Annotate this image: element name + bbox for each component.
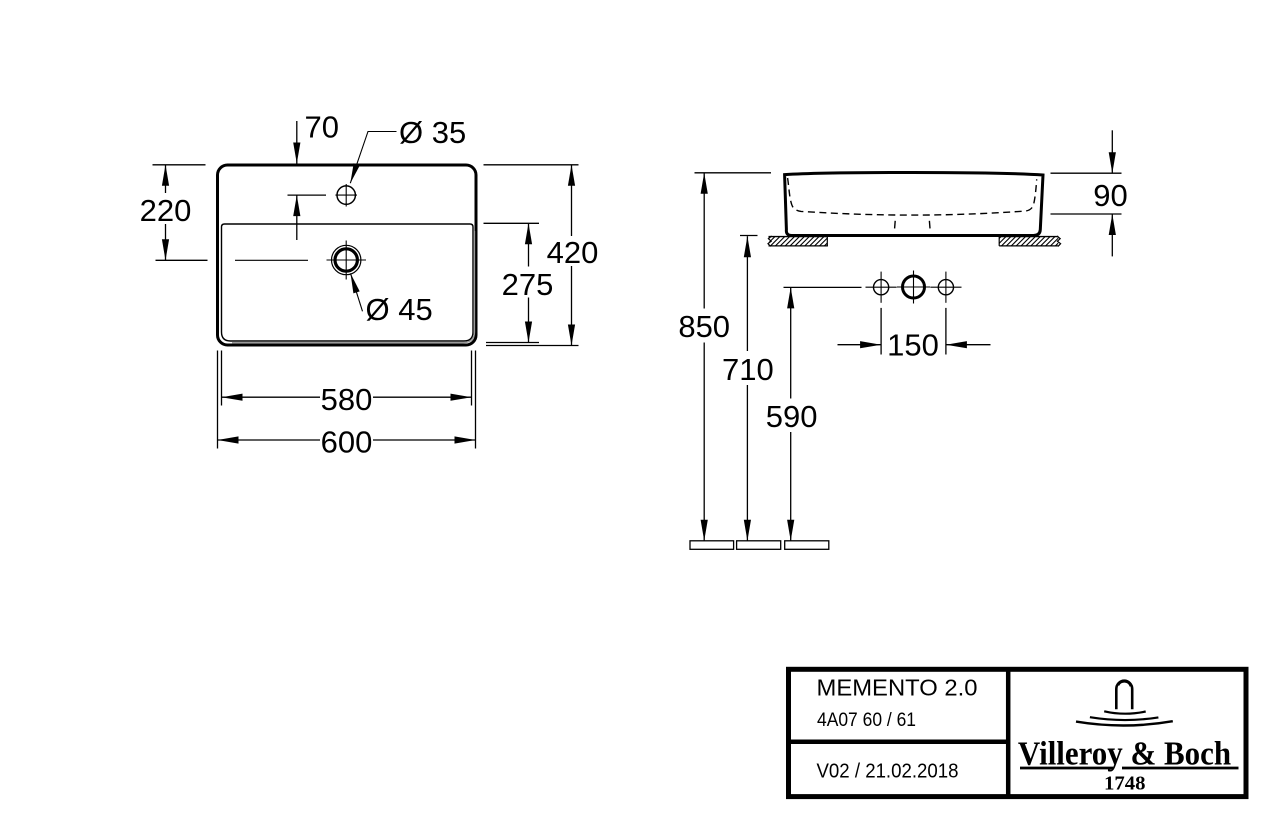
side view: basin profile outline — [785, 172, 1043, 235]
side view: dashed inner bowl line — [788, 178, 1037, 215]
svg-text:420: 420 — [547, 235, 599, 270]
drain inner circle (Ø45) — [335, 249, 357, 271]
dimension 590 — [784, 286, 862, 288]
svg-text:600: 600 — [321, 425, 373, 460]
dimension 420 (right) — [484, 164, 579, 166]
left view: inner basin bowl edge — [222, 224, 474, 341]
svg-text:4A07 60 / 61: 4A07 60 / 61 — [817, 709, 916, 731]
tap hole circle (Ø35) — [337, 186, 355, 204]
dimension 710 — [740, 235, 758, 237]
svg-text:Ø 45: Ø 45 — [366, 292, 433, 327]
title block horizontal divider — [786, 740, 1008, 745]
dimension 70 (tap hole offset) — [296, 121, 298, 164]
svg-text:V02 / 21.02.2018: V02 / 21.02.2018 — [817, 760, 959, 782]
svg-text:850: 850 — [678, 309, 730, 344]
countertop hatch right — [991, 236, 1070, 247]
title block vertical divider — [1006, 667, 1011, 799]
dimension 150 — [880, 308, 882, 355]
svg-text:590: 590 — [766, 399, 818, 434]
svg-text:MEMENTO 2.0: MEMENTO 2.0 — [817, 675, 978, 701]
dimension 275 (inner right) — [484, 222, 540, 224]
svg-text:90: 90 — [1093, 178, 1127, 213]
logo faucet arch — [1116, 681, 1132, 709]
supply hole center (bold) — [903, 276, 925, 298]
break zigzag right — [1057, 236, 1061, 246]
supply hole right — [938, 280, 953, 295]
left view: grey shadow inside bowl right+bottom — [232, 231, 474, 343]
svg-text:220: 220 — [140, 193, 192, 228]
title block outer border — [789, 669, 1247, 796]
drain centerline inside basin — [235, 259, 308, 261]
svg-text:70: 70 — [305, 110, 339, 145]
logo ripple arc 2 — [1090, 717, 1159, 720]
dimension 580 — [221, 351, 223, 406]
dimension 220 (left) — [153, 164, 206, 166]
hidden drain ticks — [894, 221, 897, 229]
svg-text:710: 710 — [722, 352, 774, 387]
floor line boxes — [690, 541, 734, 550]
svg-text:1748: 1748 — [1104, 773, 1146, 795]
dimension 90 — [1051, 172, 1122, 174]
logo ripple arc 3 — [1076, 721, 1173, 725]
logo faucet arch inner accent — [1119, 682, 1131, 687]
supply hole left — [874, 280, 889, 295]
countertop hatch left — [760, 236, 839, 247]
dimension 600 — [217, 351, 219, 449]
svg-text:275: 275 — [502, 267, 554, 302]
left view: basin outer rim (top view) — [218, 165, 477, 345]
leader Ø 45 — [351, 273, 363, 311]
tap hole crosshair — [335, 194, 357, 196]
logo ripple arc 1 — [1104, 711, 1146, 713]
drain outer circle — [332, 245, 361, 274]
drain crosshair — [327, 259, 367, 261]
dimension 850 — [695, 172, 772, 174]
leader Ø 35 — [350, 132, 396, 184]
svg-text:Ø 35: Ø 35 — [399, 115, 466, 150]
svg-text:150: 150 — [887, 328, 939, 363]
break zigzag left — [768, 236, 772, 246]
logo underline — [1020, 767, 1113, 770]
svg-text:580: 580 — [321, 382, 373, 417]
